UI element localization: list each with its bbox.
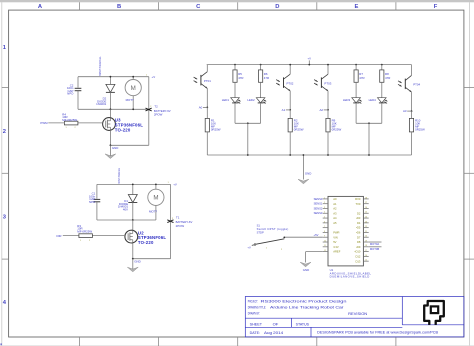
svg-text:A2: A2 xyxy=(319,108,323,112)
svg-text:D: D xyxy=(275,4,279,10)
svg-text:STATUS: STATUS xyxy=(296,323,310,327)
svg-text:20: 20 xyxy=(365,236,367,238)
svg-text:2: 2 xyxy=(150,106,151,108)
svg-text:2: 2 xyxy=(75,127,76,129)
svg-text:PT04: PT04 xyxy=(413,83,420,87)
svg-text:+V: +V xyxy=(247,245,251,249)
svg-text:F: F xyxy=(434,4,438,10)
svg-text:D4: D4 xyxy=(357,221,361,225)
svg-text:17: 17 xyxy=(365,250,367,252)
svg-text:A4: A4 xyxy=(333,216,337,220)
svg-text:M: M xyxy=(131,85,136,92)
svg-text:PT02: PT02 xyxy=(287,81,294,85)
svg-text:SENS1: SENS1 xyxy=(314,202,323,206)
svg-text:+V: +V xyxy=(308,56,312,60)
svg-text:1: 1 xyxy=(146,74,147,76)
svg-text:4: 4 xyxy=(3,300,7,306)
svg-text:PWR: PWR xyxy=(333,231,339,235)
svg-text:47R: 47R xyxy=(385,76,390,80)
svg-text:47R: 47R xyxy=(238,76,243,80)
svg-text:28: 28 xyxy=(365,197,367,199)
svg-text:VIN: VIN xyxy=(333,235,338,239)
svg-text:LED1: LED1 xyxy=(222,98,230,102)
svg-text:B: B xyxy=(117,4,121,10)
svg-text:2: 2 xyxy=(324,202,325,204)
svg-text:TO-220: TO-220 xyxy=(115,127,131,132)
svg-text:1N4001: 1N4001 xyxy=(96,102,107,106)
svg-text:9: 9 xyxy=(324,236,325,238)
svg-text:21: 21 xyxy=(365,231,367,233)
svg-text:A: A xyxy=(38,4,43,10)
svg-text:MF-0R25W: MF-0R25W xyxy=(77,229,92,233)
svg-text:2: 2 xyxy=(281,249,282,251)
svg-text:40V: 40V xyxy=(123,207,128,211)
svg-text:Arduino Line Tracking Robot Ca: Arduino Line Tracking Robot Car xyxy=(270,306,345,310)
svg-text:1: 1 xyxy=(324,197,325,199)
svg-text:S1: S1 xyxy=(257,223,261,227)
svg-text:23: 23 xyxy=(365,221,367,223)
svg-text:DRAWING TITLE:: DRAWING TITLE: xyxy=(248,306,266,310)
svg-text:LED3: LED3 xyxy=(343,98,351,102)
svg-text:A3: A3 xyxy=(403,109,407,113)
svg-text:+V: +V xyxy=(173,183,177,187)
svg-text:3: 3 xyxy=(324,207,325,209)
svg-text:SENS2: SENS2 xyxy=(314,206,323,210)
svg-text:2POW: 2POW xyxy=(154,113,163,117)
svg-text:DUEMILANOVE_SHIELD: DUEMILANOVE_SHIELD xyxy=(330,275,370,279)
svg-text:16: 16 xyxy=(365,255,367,257)
svg-text:GND: GND xyxy=(303,268,309,272)
svg-text:1: 1 xyxy=(3,45,7,51)
svg-text:15: 15 xyxy=(365,260,367,262)
svg-text:LED4: LED4 xyxy=(369,98,377,102)
svg-text:PROJECT:: PROJECT: xyxy=(248,299,258,303)
svg-text:TO-220: TO-220 xyxy=(138,240,154,245)
svg-text:11: 11 xyxy=(324,245,326,247)
svg-text:A3: A3 xyxy=(333,211,337,215)
svg-text:19: 19 xyxy=(365,240,367,242)
svg-text:A0: A0 xyxy=(199,106,203,110)
svg-text:8: 8 xyxy=(324,231,325,233)
svg-text:2POW: 2POW xyxy=(176,224,185,228)
svg-text:•D5: •D5 xyxy=(356,226,361,230)
svg-text:MOT0B: MOT0B xyxy=(370,247,379,251)
svg-text:D13: D13 xyxy=(355,259,360,263)
svg-text:SENS3: SENS3 xyxy=(314,211,323,215)
svg-text:MOT0A: MOT0A xyxy=(370,242,379,246)
svg-text:1: 1 xyxy=(266,247,267,249)
svg-text:24: 24 xyxy=(365,216,367,218)
svg-text:0R25W: 0R25W xyxy=(332,127,342,131)
svg-text:MF-0R25W: MF-0R25W xyxy=(62,118,77,122)
svg-text:7: 7 xyxy=(324,226,325,228)
svg-text:D2: D2 xyxy=(357,211,361,215)
svg-text:3: 3 xyxy=(3,214,7,220)
svg-text:22: 22 xyxy=(365,226,367,228)
svg-text:2: 2 xyxy=(172,218,173,220)
svg-text:•D9: •D9 xyxy=(356,245,361,249)
svg-text:4: 4 xyxy=(324,212,325,214)
svg-text:1: 1 xyxy=(80,240,81,242)
svg-text:DIR: DIR xyxy=(57,234,62,238)
svg-text:RX0: RX0 xyxy=(355,197,361,201)
svg-text:47R: 47R xyxy=(359,76,364,80)
svg-text:2: 2 xyxy=(89,240,90,242)
svg-text:D7: D7 xyxy=(357,235,361,239)
svg-text:LED2: LED2 xyxy=(247,98,255,102)
svg-text:T1: T1 xyxy=(176,216,180,220)
svg-text:25: 25 xyxy=(365,212,367,214)
svg-text:Aug 2014: Aug 2014 xyxy=(264,331,283,335)
svg-text:DATE:: DATE: xyxy=(250,331,261,335)
svg-text:BATTERY HOLDER 4xAA: BATTERY HOLDER 4xAA xyxy=(99,57,102,76)
svg-text:NPO: NPO xyxy=(89,200,96,204)
svg-text:10: 10 xyxy=(324,240,326,242)
svg-text:47R: 47R xyxy=(264,76,269,80)
svg-text:MOT?: MOT? xyxy=(126,98,134,102)
svg-text:Switch DPST (toggle): Switch DPST (toggle) xyxy=(257,227,289,231)
svg-text:GND: GND xyxy=(305,172,311,176)
svg-text:T2: T2 xyxy=(154,104,158,108)
svg-text:AREF: AREF xyxy=(333,250,341,254)
svg-text:26: 26 xyxy=(365,207,367,209)
svg-text:12: 12 xyxy=(324,250,326,252)
svg-text:SENS0: SENS0 xyxy=(314,197,323,201)
svg-text:A1: A1 xyxy=(282,108,286,112)
svg-text:NPO: NPO xyxy=(67,92,74,96)
svg-text:+V: +V xyxy=(152,75,156,79)
svg-text:GND: GND xyxy=(134,259,140,263)
svg-text:1: 1 xyxy=(66,127,67,129)
svg-text:A2: A2 xyxy=(333,207,337,211)
svg-text:5V: 5V xyxy=(333,240,336,244)
svg-text:E: E xyxy=(354,4,358,10)
svg-text:0R25W: 0R25W xyxy=(415,127,425,131)
svg-text:18: 18 xyxy=(365,245,367,247)
svg-text:3.3V: 3.3V xyxy=(333,245,339,249)
svg-text:0R25W: 0R25W xyxy=(211,127,221,131)
svg-text:DESIGNSPARK PCB available for: DESIGNSPARK PCB available for FREE at ww… xyxy=(317,330,438,334)
svg-text:PWM: PWM xyxy=(40,121,48,125)
svg-text:STDP: STDP xyxy=(257,230,264,234)
svg-text:C: C xyxy=(196,4,201,10)
svg-text:A0: A0 xyxy=(333,197,337,201)
svg-text:REVISION: REVISION xyxy=(348,312,367,316)
svg-text:MOT?: MOT? xyxy=(149,210,157,214)
svg-text:27: 27 xyxy=(365,202,367,204)
svg-text:SHEET: SHEET xyxy=(250,323,263,327)
svg-text:•D3: •D3 xyxy=(356,216,361,220)
svg-text:TX0: TX0 xyxy=(355,202,360,206)
svg-text:2: 2 xyxy=(3,129,6,135)
svg-text:BATTERY HOLDER 4xAA: BATTERY HOLDER 4xAA xyxy=(118,168,121,184)
svg-text:A5: A5 xyxy=(333,221,337,225)
svg-text:PT01: PT01 xyxy=(204,79,211,83)
svg-text:PT03: PT03 xyxy=(324,81,331,85)
svg-text:M: M xyxy=(153,195,158,202)
svg-text:OF: OF xyxy=(273,323,280,327)
svg-text:•D6: •D6 xyxy=(356,231,361,235)
svg-text:A1: A1 xyxy=(333,202,337,206)
svg-text:RS3000 Electronic Product Desi: RS3000 Electronic Product Design xyxy=(261,299,347,303)
svg-text:5: 5 xyxy=(324,216,325,218)
svg-text:0R25W: 0R25W xyxy=(294,127,304,131)
svg-text:D8: D8 xyxy=(357,240,361,244)
svg-text:6: 6 xyxy=(324,221,325,223)
svg-text:GND: GND xyxy=(112,146,118,150)
svg-text:DRAWN BY:: DRAWN BY: xyxy=(248,312,260,316)
svg-text:•D10: •D10 xyxy=(355,250,361,254)
svg-text:+5V: +5V xyxy=(314,233,319,237)
svg-text:D12: D12 xyxy=(355,254,360,258)
svg-text:1: 1 xyxy=(168,182,169,184)
